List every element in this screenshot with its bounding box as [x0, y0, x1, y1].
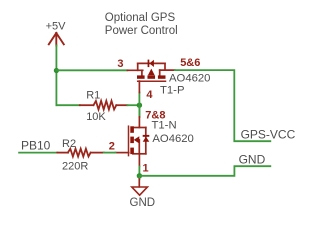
wire to ground symbol	[138, 176, 140, 179]
junction node gate of T1-P	[137, 103, 142, 108]
svg-text:PB10: PB10	[21, 138, 51, 152]
supply +5V	[46, 21, 67, 46]
wire gate node vertical	[138, 93, 140, 117]
resistor R1	[80, 101, 128, 110]
svg-text:4: 4	[146, 89, 153, 101]
junction node +5V	[54, 68, 59, 73]
wire +5V to T1-P pin 3	[56, 69, 127, 71]
svg-text:R2: R2	[62, 138, 76, 150]
wire R1 to gate node	[127, 104, 139, 106]
svg-text:AO4620: AO4620	[169, 73, 210, 85]
svg-text:+5V: +5V	[46, 21, 67, 33]
svg-text:T1-N: T1-N	[152, 120, 177, 132]
transistor T1-P	[127, 60, 174, 93]
wire T1-N source to GND node	[138, 167, 140, 176]
wire R1 row	[56, 104, 79, 106]
svg-text:AO4620: AO4620	[152, 133, 193, 145]
svg-text:R1: R1	[86, 90, 100, 102]
svg-text:GND: GND	[239, 152, 266, 166]
svg-text:GND: GND	[130, 197, 156, 209]
transistor T1-N	[116, 117, 150, 167]
svg-text:1: 1	[143, 163, 149, 175]
svg-text:2: 2	[109, 141, 115, 153]
svg-text:Optional GPS: Optional GPS	[105, 12, 176, 24]
note: title text	[105, 12, 178, 37]
wire gate node to T1-N drain	[138, 105, 140, 117]
svg-text:10K: 10K	[86, 111, 106, 123]
svg-text:GPS-VCC: GPS-VCC	[241, 127, 296, 141]
wire R2 to T1-N gate	[104, 152, 116, 154]
wire +5V vertical	[55, 46, 57, 106]
wire T1-P drain to GPS-VCC	[175, 70, 270, 141]
svg-text:T1-P: T1-P	[160, 85, 184, 97]
wire GND rail right	[139, 166, 270, 176]
ground symbol GND	[132, 187, 148, 195]
resistor R2	[57, 149, 104, 157]
ground pin	[138, 179, 140, 187]
svg-text:3: 3	[117, 58, 123, 70]
junction node source/GND	[137, 173, 142, 178]
wire PB10 input	[19, 152, 57, 154]
svg-text:220R: 220R	[62, 161, 88, 173]
svg-text:5&6: 5&6	[180, 57, 200, 69]
svg-text:Power Control: Power Control	[105, 25, 178, 37]
